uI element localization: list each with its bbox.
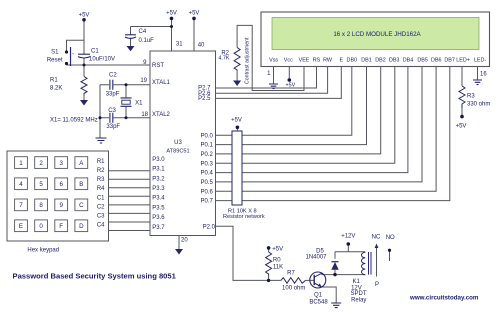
svg-text:-: - bbox=[72, 52, 74, 58]
svg-text:S1: S1 bbox=[51, 50, 59, 56]
svg-text:DB6: DB6 bbox=[431, 58, 442, 64]
svg-text:www.circuitstoday.com: www.circuitstoday.com bbox=[409, 295, 479, 302]
svg-text:E: E bbox=[339, 58, 343, 64]
svg-text:4.7K: 4.7K bbox=[218, 56, 229, 62]
svg-text:DB7: DB7 bbox=[444, 58, 455, 64]
svg-text:31: 31 bbox=[176, 42, 183, 48]
svg-text:4: 4 bbox=[19, 181, 23, 188]
svg-text:F: F bbox=[59, 223, 63, 230]
svg-text:C2: C2 bbox=[97, 204, 105, 210]
svg-text:R1: R1 bbox=[50, 78, 58, 84]
svg-text:C1: C1 bbox=[91, 49, 99, 55]
svg-text:P0.7: P0.7 bbox=[200, 199, 213, 205]
svg-text:100 ohm: 100 ohm bbox=[282, 286, 305, 292]
svg-text:RS: RS bbox=[313, 58, 321, 64]
svg-text:D: D bbox=[79, 223, 84, 230]
svg-text:Contrast adjustment: Contrast adjustment bbox=[245, 37, 251, 84]
svg-text:R4: R4 bbox=[97, 186, 105, 192]
svg-text:C3: C3 bbox=[108, 108, 116, 114]
svg-text:P0.3: P0.3 bbox=[200, 161, 213, 167]
svg-text:R2: R2 bbox=[97, 168, 105, 174]
svg-text:DB0: DB0 bbox=[347, 58, 358, 64]
svg-text:RW: RW bbox=[323, 58, 333, 64]
svg-text:R3: R3 bbox=[97, 177, 105, 183]
svg-text:P3.3: P3.3 bbox=[152, 186, 165, 192]
svg-text:9: 9 bbox=[59, 202, 63, 209]
svg-text:20: 20 bbox=[181, 238, 188, 244]
svg-text:P3.6: P3.6 bbox=[152, 215, 165, 221]
svg-text:X1= 11.0592 MHz: X1= 11.0592 MHz bbox=[50, 118, 98, 124]
svg-text:Vss: Vss bbox=[269, 58, 278, 64]
svg-text:33pF: 33pF bbox=[106, 124, 120, 130]
svg-text:P3.4: P3.4 bbox=[152, 196, 165, 202]
svg-text:P0.0: P0.0 bbox=[200, 133, 213, 139]
svg-text:3: 3 bbox=[59, 160, 63, 167]
svg-text:+5V: +5V bbox=[286, 83, 296, 89]
svg-text:P0.6: P0.6 bbox=[200, 189, 213, 195]
svg-text:10uF/10V: 10uF/10V bbox=[89, 57, 115, 63]
svg-text:XTAL2: XTAL2 bbox=[152, 112, 171, 118]
svg-text:C1: C1 bbox=[97, 195, 105, 201]
svg-text:NO: NO bbox=[386, 235, 395, 241]
svg-text:1N4007: 1N4007 bbox=[305, 255, 327, 261]
svg-text:P3.0: P3.0 bbox=[152, 157, 165, 163]
svg-text:18: 18 bbox=[141, 112, 148, 118]
svg-text:+5V: +5V bbox=[79, 13, 90, 19]
svg-text:LED-: LED- bbox=[474, 58, 486, 64]
svg-text:Q1: Q1 bbox=[314, 293, 323, 299]
svg-text:1: 1 bbox=[19, 160, 23, 167]
svg-text:DB2: DB2 bbox=[375, 58, 386, 64]
svg-text:+5V: +5V bbox=[456, 124, 467, 130]
svg-text:40: 40 bbox=[198, 42, 205, 48]
svg-text:SPDT: SPDT bbox=[351, 291, 367, 297]
svg-text:16: 16 bbox=[480, 72, 487, 78]
svg-text:+5V: +5V bbox=[272, 246, 283, 252]
svg-text:VEE: VEE bbox=[299, 58, 310, 64]
svg-text:+12V: +12V bbox=[341, 234, 355, 240]
svg-text:P0.4: P0.4 bbox=[200, 171, 213, 177]
svg-text:C2: C2 bbox=[109, 72, 117, 78]
svg-text:P0.1: P0.1 bbox=[200, 143, 213, 149]
svg-text:8: 8 bbox=[39, 202, 43, 209]
svg-text:R7: R7 bbox=[287, 270, 295, 276]
svg-text:DB3: DB3 bbox=[389, 58, 400, 64]
svg-text:11K: 11K bbox=[273, 265, 283, 271]
svg-text:16 x 2 LCD MODULE JHD162A: 16 x 2 LCD MODULE JHD162A bbox=[333, 31, 421, 38]
svg-text:RST: RST bbox=[152, 63, 164, 69]
svg-text:Relay: Relay bbox=[351, 297, 366, 303]
svg-text:P3.7: P3.7 bbox=[152, 225, 165, 231]
svg-text:5: 5 bbox=[39, 181, 43, 188]
svg-text:AT89C51: AT89C51 bbox=[166, 149, 189, 155]
svg-text:Hex keypad: Hex keypad bbox=[27, 247, 59, 253]
svg-text:BC548: BC548 bbox=[309, 299, 328, 305]
svg-text:P3.1: P3.1 bbox=[152, 167, 165, 173]
svg-text:6: 6 bbox=[59, 181, 63, 188]
svg-text:7: 7 bbox=[19, 202, 23, 209]
svg-text:LED+: LED+ bbox=[456, 58, 470, 64]
svg-text:X1: X1 bbox=[135, 100, 143, 106]
svg-text:Reset: Reset bbox=[47, 58, 63, 64]
svg-text:P: P bbox=[375, 282, 379, 288]
svg-text:NC: NC bbox=[372, 235, 381, 241]
svg-text:E: E bbox=[19, 223, 23, 230]
svg-text:33pF: 33pF bbox=[106, 91, 120, 97]
svg-text:+5V: +5V bbox=[231, 118, 242, 124]
svg-text:0: 0 bbox=[39, 223, 43, 230]
svg-text:2: 2 bbox=[39, 160, 43, 167]
svg-text:P3.5: P3.5 bbox=[152, 205, 165, 211]
svg-text:DB4: DB4 bbox=[403, 58, 414, 64]
svg-text:C4: C4 bbox=[139, 29, 147, 35]
svg-text:C: C bbox=[79, 202, 84, 209]
svg-text:XTAL1: XTAL1 bbox=[152, 80, 171, 86]
svg-text:P2.5: P2.5 bbox=[198, 96, 211, 102]
svg-text:19: 19 bbox=[140, 78, 147, 84]
svg-text:+5V: +5V bbox=[189, 11, 200, 17]
svg-text:R3: R3 bbox=[467, 94, 475, 100]
svg-text:D5: D5 bbox=[316, 248, 324, 254]
svg-text:P0.5: P0.5 bbox=[200, 180, 213, 186]
svg-text:DB1: DB1 bbox=[361, 58, 372, 64]
svg-text:B: B bbox=[79, 181, 83, 188]
svg-text:Resistor network: Resistor network bbox=[223, 214, 265, 220]
svg-text:8.2K: 8.2K bbox=[50, 86, 62, 92]
svg-text:K1: K1 bbox=[353, 279, 361, 285]
svg-text:+5V: +5V bbox=[166, 11, 177, 17]
svg-text:C3: C3 bbox=[97, 213, 105, 219]
svg-text:Password Based Security System: Password Based Security System using 805… bbox=[13, 272, 177, 281]
svg-text:Vcc: Vcc bbox=[284, 58, 293, 64]
svg-text:P3.2: P3.2 bbox=[152, 176, 165, 182]
svg-text:0.1uF: 0.1uF bbox=[139, 38, 155, 44]
svg-text:P0.2: P0.2 bbox=[200, 152, 213, 158]
svg-text:R1: R1 bbox=[97, 159, 105, 165]
svg-text:U3: U3 bbox=[174, 140, 182, 146]
svg-text:R0: R0 bbox=[273, 257, 281, 263]
svg-text:C4: C4 bbox=[97, 222, 105, 228]
svg-text:330 ohm: 330 ohm bbox=[467, 102, 490, 108]
svg-text:P2.0: P2.0 bbox=[203, 224, 216, 230]
svg-text:DB5: DB5 bbox=[417, 58, 428, 64]
